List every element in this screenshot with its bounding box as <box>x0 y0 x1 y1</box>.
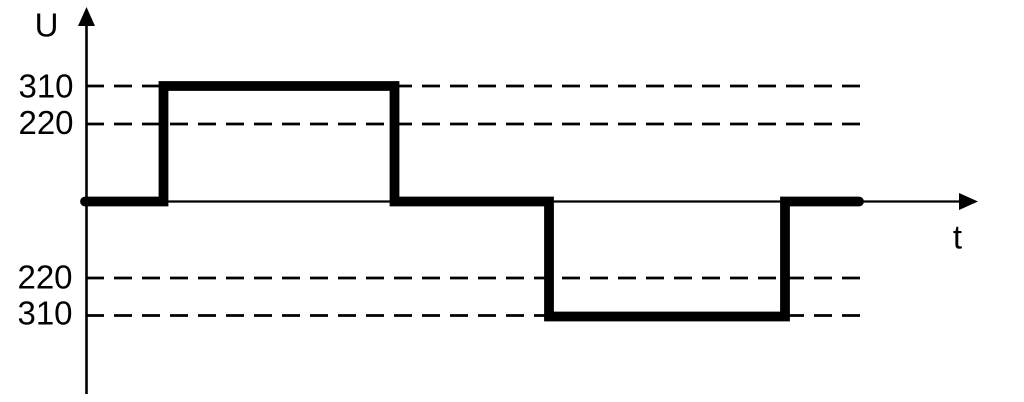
svg-text:310: 310 <box>17 295 72 332</box>
svg-text:220: 220 <box>18 104 73 141</box>
t axis arrowhead <box>959 193 978 210</box>
svg-text:220: 220 <box>17 259 72 296</box>
dashed level line -310 <box>86 314 862 317</box>
svg-text:U: U <box>35 7 59 44</box>
dashed level line +220 <box>86 123 862 126</box>
dashed level line +310 <box>86 85 862 88</box>
svg-text:t: t <box>953 219 962 256</box>
square wave U(t) <box>85 86 859 317</box>
dashed level line -220 <box>86 277 862 280</box>
t axis (horizontal) <box>86 200 961 202</box>
svg-text:310: 310 <box>18 68 73 105</box>
U axis (vertical) <box>85 20 88 394</box>
U axis arrowhead <box>78 7 95 26</box>
